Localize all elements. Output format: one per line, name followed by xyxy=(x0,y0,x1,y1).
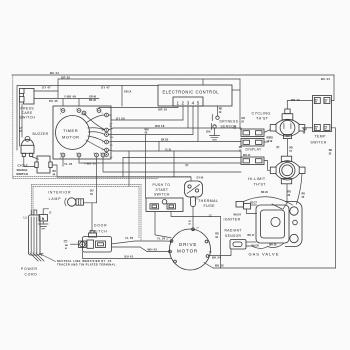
svg-text:YL 31: YL 31 xyxy=(165,148,172,151)
drive motor xyxy=(170,229,211,270)
wire ladder drop x123 xyxy=(122,158,124,178)
svg-text:START: START xyxy=(156,188,169,192)
wire press switch to timer a xyxy=(34,90,58,92)
svg-text:BUZZER: BUZZER xyxy=(33,132,49,136)
svg-text:BK 29: BK 29 xyxy=(261,191,268,194)
wire fuse to motor xyxy=(192,207,194,230)
wire timer bottom y172 ladder xyxy=(103,157,241,172)
wire GN20 drop to display xyxy=(239,79,241,129)
svg-text:RD 42: RD 42 xyxy=(291,98,300,102)
igniter connector xyxy=(236,202,251,210)
svg-text:LAMP: LAMP xyxy=(49,197,62,201)
svg-text:WH 24: WH 24 xyxy=(234,214,242,217)
wire ladder y151 xyxy=(109,150,242,157)
interior lamp bulb xyxy=(65,198,84,206)
note arrow xyxy=(40,253,56,261)
svg-text:GY 47: GY 47 xyxy=(42,86,51,90)
wire RD19 control to sensor xyxy=(217,106,219,116)
console enclosure left/bottom (dashed) xyxy=(13,76,191,179)
radiant sensor xyxy=(230,240,246,250)
wire N to ground xyxy=(43,209,48,224)
svg-text:L1: L1 xyxy=(24,216,28,220)
display connector B2 xyxy=(241,139,264,147)
wire buzzer to cycle switch xyxy=(24,157,39,167)
svg-text:BK 34: BK 34 xyxy=(212,256,221,260)
svg-text:INTERIOR: INTERIOR xyxy=(48,190,71,194)
wire press switch to timer b / Y-BK 49 xyxy=(34,99,99,107)
svg-text:YL 55: YL 55 xyxy=(125,236,134,240)
gas valve body xyxy=(256,202,302,247)
svg-text:GY 50: GY 50 xyxy=(197,177,204,180)
wire ladder y157 xyxy=(123,157,241,159)
svg-text:BU 41: BU 41 xyxy=(125,254,134,258)
svg-text:MOTOR: MOTOR xyxy=(177,249,198,254)
svg-text:Y-BK 45: Y-BK 45 xyxy=(84,162,96,166)
svg-text:CORD: CORD xyxy=(25,273,38,277)
svg-text:POWER: POWER xyxy=(21,267,38,271)
door switch xyxy=(71,231,112,252)
svg-text:BK 1B: BK 1B xyxy=(161,139,168,142)
power cord xyxy=(29,210,45,261)
centrifugal switch xyxy=(185,181,203,197)
svg-text:DISPLAY: DISPLAY xyxy=(246,147,263,151)
wire sensor to ground xyxy=(214,128,216,135)
wire drop x174 xyxy=(173,151,175,177)
dryness sensor xyxy=(212,115,220,130)
timer terminals top xyxy=(61,109,101,115)
wire hi-limit down to valve xyxy=(287,174,302,204)
svg-text:WH 26: WH 26 xyxy=(252,244,260,247)
svg-text:GAS VALVE: GAS VALVE xyxy=(249,252,280,257)
svg-text:WH: WH xyxy=(110,137,114,139)
svg-text:12345: 12345 xyxy=(177,100,202,105)
svg-text:RD 27: RD 27 xyxy=(250,202,257,205)
wire lamp to timer drop xyxy=(84,203,97,231)
wire BU44 drop to temp switch xyxy=(332,75,335,101)
svg-text:W: W xyxy=(102,130,104,132)
wire control pin1 GR16 xyxy=(99,106,178,109)
wire B3 to hi-limit xyxy=(264,161,273,171)
wire control pin5 xyxy=(197,106,199,141)
timer cam traces xyxy=(86,115,105,123)
svg-text:SWITCH: SWITCH xyxy=(16,172,28,176)
svg-text:BK 32: BK 32 xyxy=(215,263,224,267)
display connector B1 xyxy=(241,129,264,137)
svg-text:G: G xyxy=(49,210,51,214)
svg-text:IGNITER: IGNITER xyxy=(224,217,241,221)
ground power xyxy=(38,224,48,229)
timer motor circle xyxy=(56,116,90,150)
svg-text:TRACER AND TIN PLATED TERMINAL: TRACER AND TIN PLATED TERMINAL. xyxy=(57,264,117,267)
neutral terminal box xyxy=(39,215,48,222)
wire WH26 lower xyxy=(246,246,268,248)
wire control top stub xyxy=(202,79,204,85)
timer terminals right xyxy=(105,113,109,156)
svg-text:PU 45: PU 45 xyxy=(49,99,58,103)
svg-text:ELECTRONIC CONTROL: ELECTRONIC CONTROL xyxy=(163,90,220,95)
svg-text:CARE: CARE xyxy=(22,111,33,115)
temp switch xyxy=(313,96,332,132)
wire GY47 line xyxy=(17,86,158,151)
svg-text:BK: BK xyxy=(329,149,333,152)
svg-text:TH'ST: TH'ST xyxy=(254,182,267,186)
svg-text:WH 22: WH 22 xyxy=(243,154,251,157)
thermal fuse xyxy=(191,197,196,207)
motor terminal labels xyxy=(166,227,212,253)
svg-text:BK 17: BK 17 xyxy=(248,234,255,237)
wire press switch drop GY42 xyxy=(21,104,23,137)
svg-text:RD: RD xyxy=(110,145,114,147)
svg-text:SENSOR: SENSOR xyxy=(225,234,242,238)
wire RD57 cycling to hi-limit xyxy=(286,139,288,157)
wire BU44 top bus xyxy=(12,74,334,76)
svg-text:FUSE: FUSE xyxy=(204,204,216,208)
wire bus to centrifugal xyxy=(190,177,192,181)
wire WH28 xyxy=(268,244,284,248)
svg-text:PUSH TO: PUSH TO xyxy=(153,183,171,187)
wire temp switch down BK32 xyxy=(332,128,336,268)
svg-text:SWITCH: SWITCH xyxy=(154,193,170,197)
wire control right to GN20 xyxy=(232,89,240,91)
svg-text:SWITCH: SWITCH xyxy=(311,141,327,145)
push to start switch xyxy=(146,198,183,212)
svg-text:BK 48: BK 48 xyxy=(89,99,96,102)
wire WH36 cycling to temp switch xyxy=(302,127,312,129)
svg-text:MOTOR: MOTOR xyxy=(62,135,80,140)
svg-text:WH 28: WH 28 xyxy=(269,244,277,247)
wire B1 to cycling thst xyxy=(264,129,273,133)
svg-text:WH 43: WH 43 xyxy=(148,248,158,252)
wire timer to interior lamp xyxy=(96,157,98,203)
svg-text:GY 50: GY 50 xyxy=(116,116,125,120)
wire BK32 bottom xyxy=(204,263,336,269)
wire YL34 push switch to motor xyxy=(155,212,171,238)
wire control pin2 xyxy=(182,106,184,120)
svg-text:PRESS: PRESS xyxy=(21,107,35,111)
wire ladder drop x129 xyxy=(128,151,130,186)
wire B2 stub xyxy=(264,141,268,143)
svg-text:YL 45: YL 45 xyxy=(64,162,73,166)
wire WH24 xyxy=(247,209,257,214)
svg-text:SENSOR: SENSOR xyxy=(221,124,238,128)
motor terminal dots xyxy=(169,228,209,263)
svg-text:GN: GN xyxy=(206,129,211,133)
wire BK34 xyxy=(209,249,232,256)
svg-text:NEUTRAL LINE IDENTIFIED BY .05: NEUTRAL LINE IDENTIFIED BY .05 xyxy=(57,260,112,263)
svg-text:GR 16: GR 16 xyxy=(158,108,167,112)
wire timer bottom y163 ladder xyxy=(79,157,241,163)
svg-text:DRIVE: DRIVE xyxy=(179,242,197,247)
svg-text:CYCLING: CYCLING xyxy=(252,112,271,116)
svg-text:TIMER: TIMER xyxy=(63,128,78,133)
timer terminal pin labels xyxy=(60,109,104,160)
svg-text:YL 34: YL 34 xyxy=(157,237,166,241)
svg-text:WH 18: WH 18 xyxy=(155,124,165,128)
wire BU41 to motor xyxy=(83,252,172,259)
svg-text:Y-BK 49: Y-BK 49 xyxy=(64,95,76,99)
wire GR20 drop xyxy=(57,79,59,98)
wire ladder y128 WH18 xyxy=(109,128,242,130)
wire control pin3 xyxy=(187,106,189,128)
junction tick marks xyxy=(64,127,279,242)
wire bus to push switch xyxy=(145,135,147,199)
cycling thermostat xyxy=(270,109,305,139)
wire WH26 sensor to valve xyxy=(246,241,256,243)
wire timer bottom to cycle switch xyxy=(62,157,64,166)
interior lamp enclosure (dashed) xyxy=(32,184,142,240)
wire GR20 bus xyxy=(58,78,240,80)
wire ladder y120 GY50 xyxy=(109,115,184,120)
svg-text:GR 20: GR 20 xyxy=(61,75,70,79)
timer right terminal wire labels xyxy=(110,124,114,160)
svg-text:GR 1A: GR 1A xyxy=(124,90,132,93)
wire RD42 xyxy=(287,101,312,110)
electronic control outer box xyxy=(158,85,232,106)
wire BK29 igniter to valve xyxy=(244,197,293,205)
svg-text:SWITCH: SWITCH xyxy=(90,229,108,233)
wire control pin4 xyxy=(192,106,194,134)
svg-text:GY 47: GY 47 xyxy=(101,86,110,90)
cycle signal switch xyxy=(35,156,52,173)
press care switch xyxy=(20,89,35,105)
timer motor box xyxy=(53,106,111,159)
svg-text:DRYNESS: DRYNESS xyxy=(220,119,239,123)
svg-text:TH'ST: TH'ST xyxy=(256,117,269,121)
timer terminals bottom xyxy=(61,153,105,157)
buzzer xyxy=(21,136,34,156)
wire cycle switch to bus xyxy=(52,165,57,177)
ground dryness sensor xyxy=(210,136,220,140)
wire door switch YL55 to motor xyxy=(112,241,172,244)
svg-text:BU 44: BU 44 xyxy=(321,77,330,81)
svg-text:TEMP: TEMP xyxy=(315,135,327,139)
svg-text:DOOR: DOOR xyxy=(94,223,107,227)
svg-text:BU 44: BU 44 xyxy=(50,71,59,75)
display connector B3 xyxy=(241,157,264,165)
wire RD27 xyxy=(251,204,257,206)
wire ladder y134 xyxy=(109,134,194,136)
svg-text:HI-LIMIT: HI-LIMIT xyxy=(248,177,266,181)
svg-text:SIGNAL: SIGNAL xyxy=(17,168,29,172)
svg-text:RADIANT: RADIANT xyxy=(225,229,242,233)
electronic control terminal strip xyxy=(173,97,203,106)
wire push switch to motor right xyxy=(171,212,221,269)
hi-limit thermostat xyxy=(270,156,305,184)
svg-text:THERMAL: THERMAL xyxy=(198,199,218,203)
wire ladder y141 xyxy=(109,141,242,144)
wire lower bus y177 xyxy=(57,176,191,178)
wire WH43 neutral to motor xyxy=(112,247,171,252)
wire drop x159 xyxy=(158,142,160,152)
